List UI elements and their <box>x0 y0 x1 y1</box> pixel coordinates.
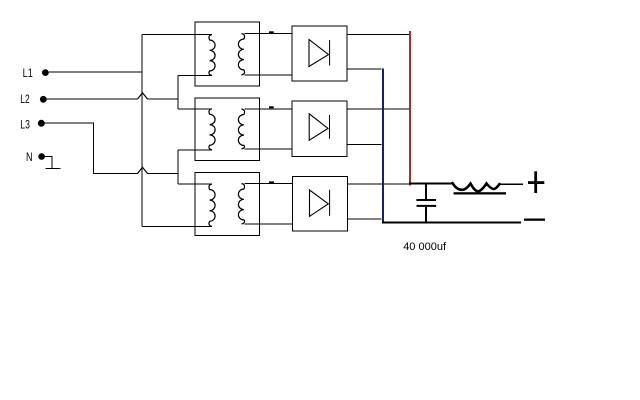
polarity dash T2 secondary <box>269 106 274 108</box>
wire bus to T1 primary top <box>142 34 212 36</box>
wire L1 to delta bus <box>49 71 142 73</box>
diode D3 cathode bar <box>329 190 331 216</box>
wire T3 secondary top to rectifier 3 <box>245 183 293 185</box>
wire positive rail to filter <box>409 183 453 185</box>
node L1 terminal dot <box>42 69 49 76</box>
capacitor C1 top plate <box>416 199 436 201</box>
svg-text:L2: L2 <box>20 92 30 106</box>
wire T3 primary top <box>178 183 212 185</box>
wire rectifier 3 positive output <box>347 183 410 185</box>
transformer T1 box <box>195 22 260 86</box>
minus terminal symbol <box>524 219 545 221</box>
diode D2 triangle <box>309 114 328 141</box>
wire T3 secondary bottom to rectifier 3 <box>245 223 293 225</box>
diode D1 triangle <box>309 40 329 67</box>
inductor L filter coil <box>453 183 500 192</box>
svg-text:L3: L3 <box>20 117 30 131</box>
svg-text:40 000uf: 40 000uf <box>403 241 447 253</box>
node L2 terminal dot <box>40 96 47 103</box>
transformer T1 secondary winding <box>238 34 244 76</box>
diode D1 cathode bar <box>329 40 331 66</box>
wire L3 down and right with hop over L1 bus <box>45 123 138 174</box>
node L3 terminal dot <box>38 120 45 127</box>
red positive bus <box>409 31 411 185</box>
transformer T1 primary winding <box>209 35 215 76</box>
inductor core bar <box>454 192 506 194</box>
transformer T2 primary winding <box>209 109 215 150</box>
wire L1 phase bus vertical <box>141 35 143 227</box>
polarity dash T3 secondary <box>269 181 274 183</box>
svg-text:L1: L1 <box>23 66 33 80</box>
rectifier U2 box <box>292 101 347 157</box>
capacitor C1 bottom lead <box>425 207 427 222</box>
wire rectifier 3 negative output to blue bus <box>347 218 382 220</box>
wire rectifier 2 negative output to blue bus <box>347 144 382 146</box>
wire rectifier 2 positive output to red bus <box>347 108 410 110</box>
blue negative bus <box>382 69 384 223</box>
diode D3 triangle <box>310 190 329 216</box>
wire T1 secondary top to rectifier 1 <box>245 33 293 35</box>
node N terminal dot <box>38 153 45 160</box>
rectifier U3 box <box>293 177 348 231</box>
wire junction T2-T3 vertical <box>177 150 179 184</box>
wire T2 primary top <box>178 108 212 110</box>
capacitor C1 bottom plate <box>417 205 437 207</box>
wire L2 with hop over L1 bus <box>47 98 138 100</box>
wire T1 primary bottom <box>178 75 212 77</box>
transformer T3 primary winding <box>209 184 215 227</box>
polarity dash T1 secondary <box>269 31 274 33</box>
transformer T2 box <box>195 98 260 161</box>
capacitor C1 top lead <box>425 183 427 199</box>
wire negative rail <box>382 222 521 224</box>
wire junction T1-T2 vertical <box>177 76 179 109</box>
ground bar at N <box>46 168 61 170</box>
diode D2 cathode bar <box>329 115 331 139</box>
transformer T2 secondary winding <box>238 109 244 149</box>
wire T1 secondary bottom to rectifier 1 <box>245 74 293 76</box>
wire rectifier 1 positive output to red bus <box>347 34 410 36</box>
wire N stub <box>45 157 52 169</box>
wire T2 primary bottom <box>178 149 212 151</box>
svg-text:N: N <box>26 150 33 164</box>
wire T2 secondary top to rectifier 2 <box>245 108 293 110</box>
transformer T3 secondary winding <box>238 184 244 225</box>
rectifier U1 box <box>292 26 347 81</box>
wire bus to T3 primary bottom <box>142 226 212 228</box>
wire T2 secondary bottom to rectifier 2 <box>245 148 293 150</box>
plus terminal symbol <box>528 181 544 184</box>
wire inductor to plus terminal <box>500 183 524 185</box>
transformer T3 box <box>195 173 260 236</box>
wire rectifier 1 negative output to blue bus <box>347 68 382 70</box>
